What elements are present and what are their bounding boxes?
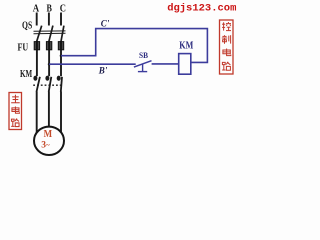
- motor M circle: [34, 127, 64, 155]
- svg-text:B': B': [98, 66, 108, 76]
- fuse FU pole B: [46, 42, 51, 50]
- contactor KM blade pole C: [61, 77, 62, 92]
- hanzi zhi (make): [222, 35, 231, 44]
- wire phase B to motor: [48, 92, 50, 129]
- svg-text:SB: SB: [139, 51, 149, 60]
- node C' junction dot: [60, 54, 63, 57]
- hanzi dian (electric): [223, 49, 231, 56]
- wire phase A to motor: [36, 92, 38, 135]
- contactor KM contact dot pole A: [33, 76, 37, 81]
- contactor KM blade pole B: [49, 77, 52, 92]
- node B' junction dot: [48, 63, 51, 66]
- wire phase B fuse to contact: [48, 50, 50, 76]
- hanzi lu (circuit): [11, 119, 19, 127]
- wire phase C top stub: [60, 13, 62, 26]
- hanzi zhu (main): [11, 95, 20, 103]
- svg-text:KM: KM: [20, 69, 33, 80]
- wire phase B top stub: [48, 13, 50, 26]
- wire B' blue control wire right of SB: [152, 63, 179, 65]
- wire B' blue control wire left of SB: [49, 63, 136, 65]
- switch QS linkage bar upper line: [34, 30, 66, 32]
- annotation box control circuit (kong zhi dian lu): [220, 20, 234, 74]
- hanzi dian (electric): [12, 106, 20, 113]
- svg-text:M: M: [44, 128, 53, 140]
- wire phase A top stub: [36, 13, 38, 26]
- svg-text:C': C': [101, 19, 110, 29]
- svg-text:dgjs123.com: dgjs123.com: [167, 2, 236, 14]
- contactor KM contact dot pole B: [45, 76, 49, 81]
- hanzi lu (circuit): [222, 62, 230, 70]
- switch QS blade pole C: [61, 26, 64, 42]
- pushbutton SB blade: [134, 61, 152, 67]
- switch QS blade pole A: [37, 26, 42, 42]
- contactor coil KM box: [179, 54, 191, 75]
- switch QS blade pole B: [49, 26, 53, 42]
- contactor KM blade pole A: [37, 77, 40, 92]
- pushbutton SB actuator stem: [142, 64, 144, 71]
- fuse FU pole A: [34, 42, 39, 50]
- hanzi kong (control): [222, 22, 231, 31]
- contactor KM contact dot pole C: [57, 76, 61, 81]
- annotation box main circuit (zhu dian lu): [9, 93, 22, 130]
- svg-text:QS: QS: [22, 20, 33, 31]
- svg-text:3~: 3~: [41, 140, 50, 150]
- svg-text:FU: FU: [18, 42, 29, 53]
- wire phase C fuse to contact: [60, 50, 62, 76]
- pushbutton SB actuator bar: [138, 71, 147, 73]
- wire C' blue control wire: [61, 29, 207, 63]
- contactor KM dotted linkage: [33, 84, 61, 86]
- wire phase A fuse to contact: [36, 50, 38, 76]
- fuse FU pole C: [58, 42, 63, 50]
- wire phase C to motor: [60, 92, 62, 136]
- svg-text:KM: KM: [179, 41, 193, 52]
- switch QS linkage bar lower line: [34, 32, 66, 34]
